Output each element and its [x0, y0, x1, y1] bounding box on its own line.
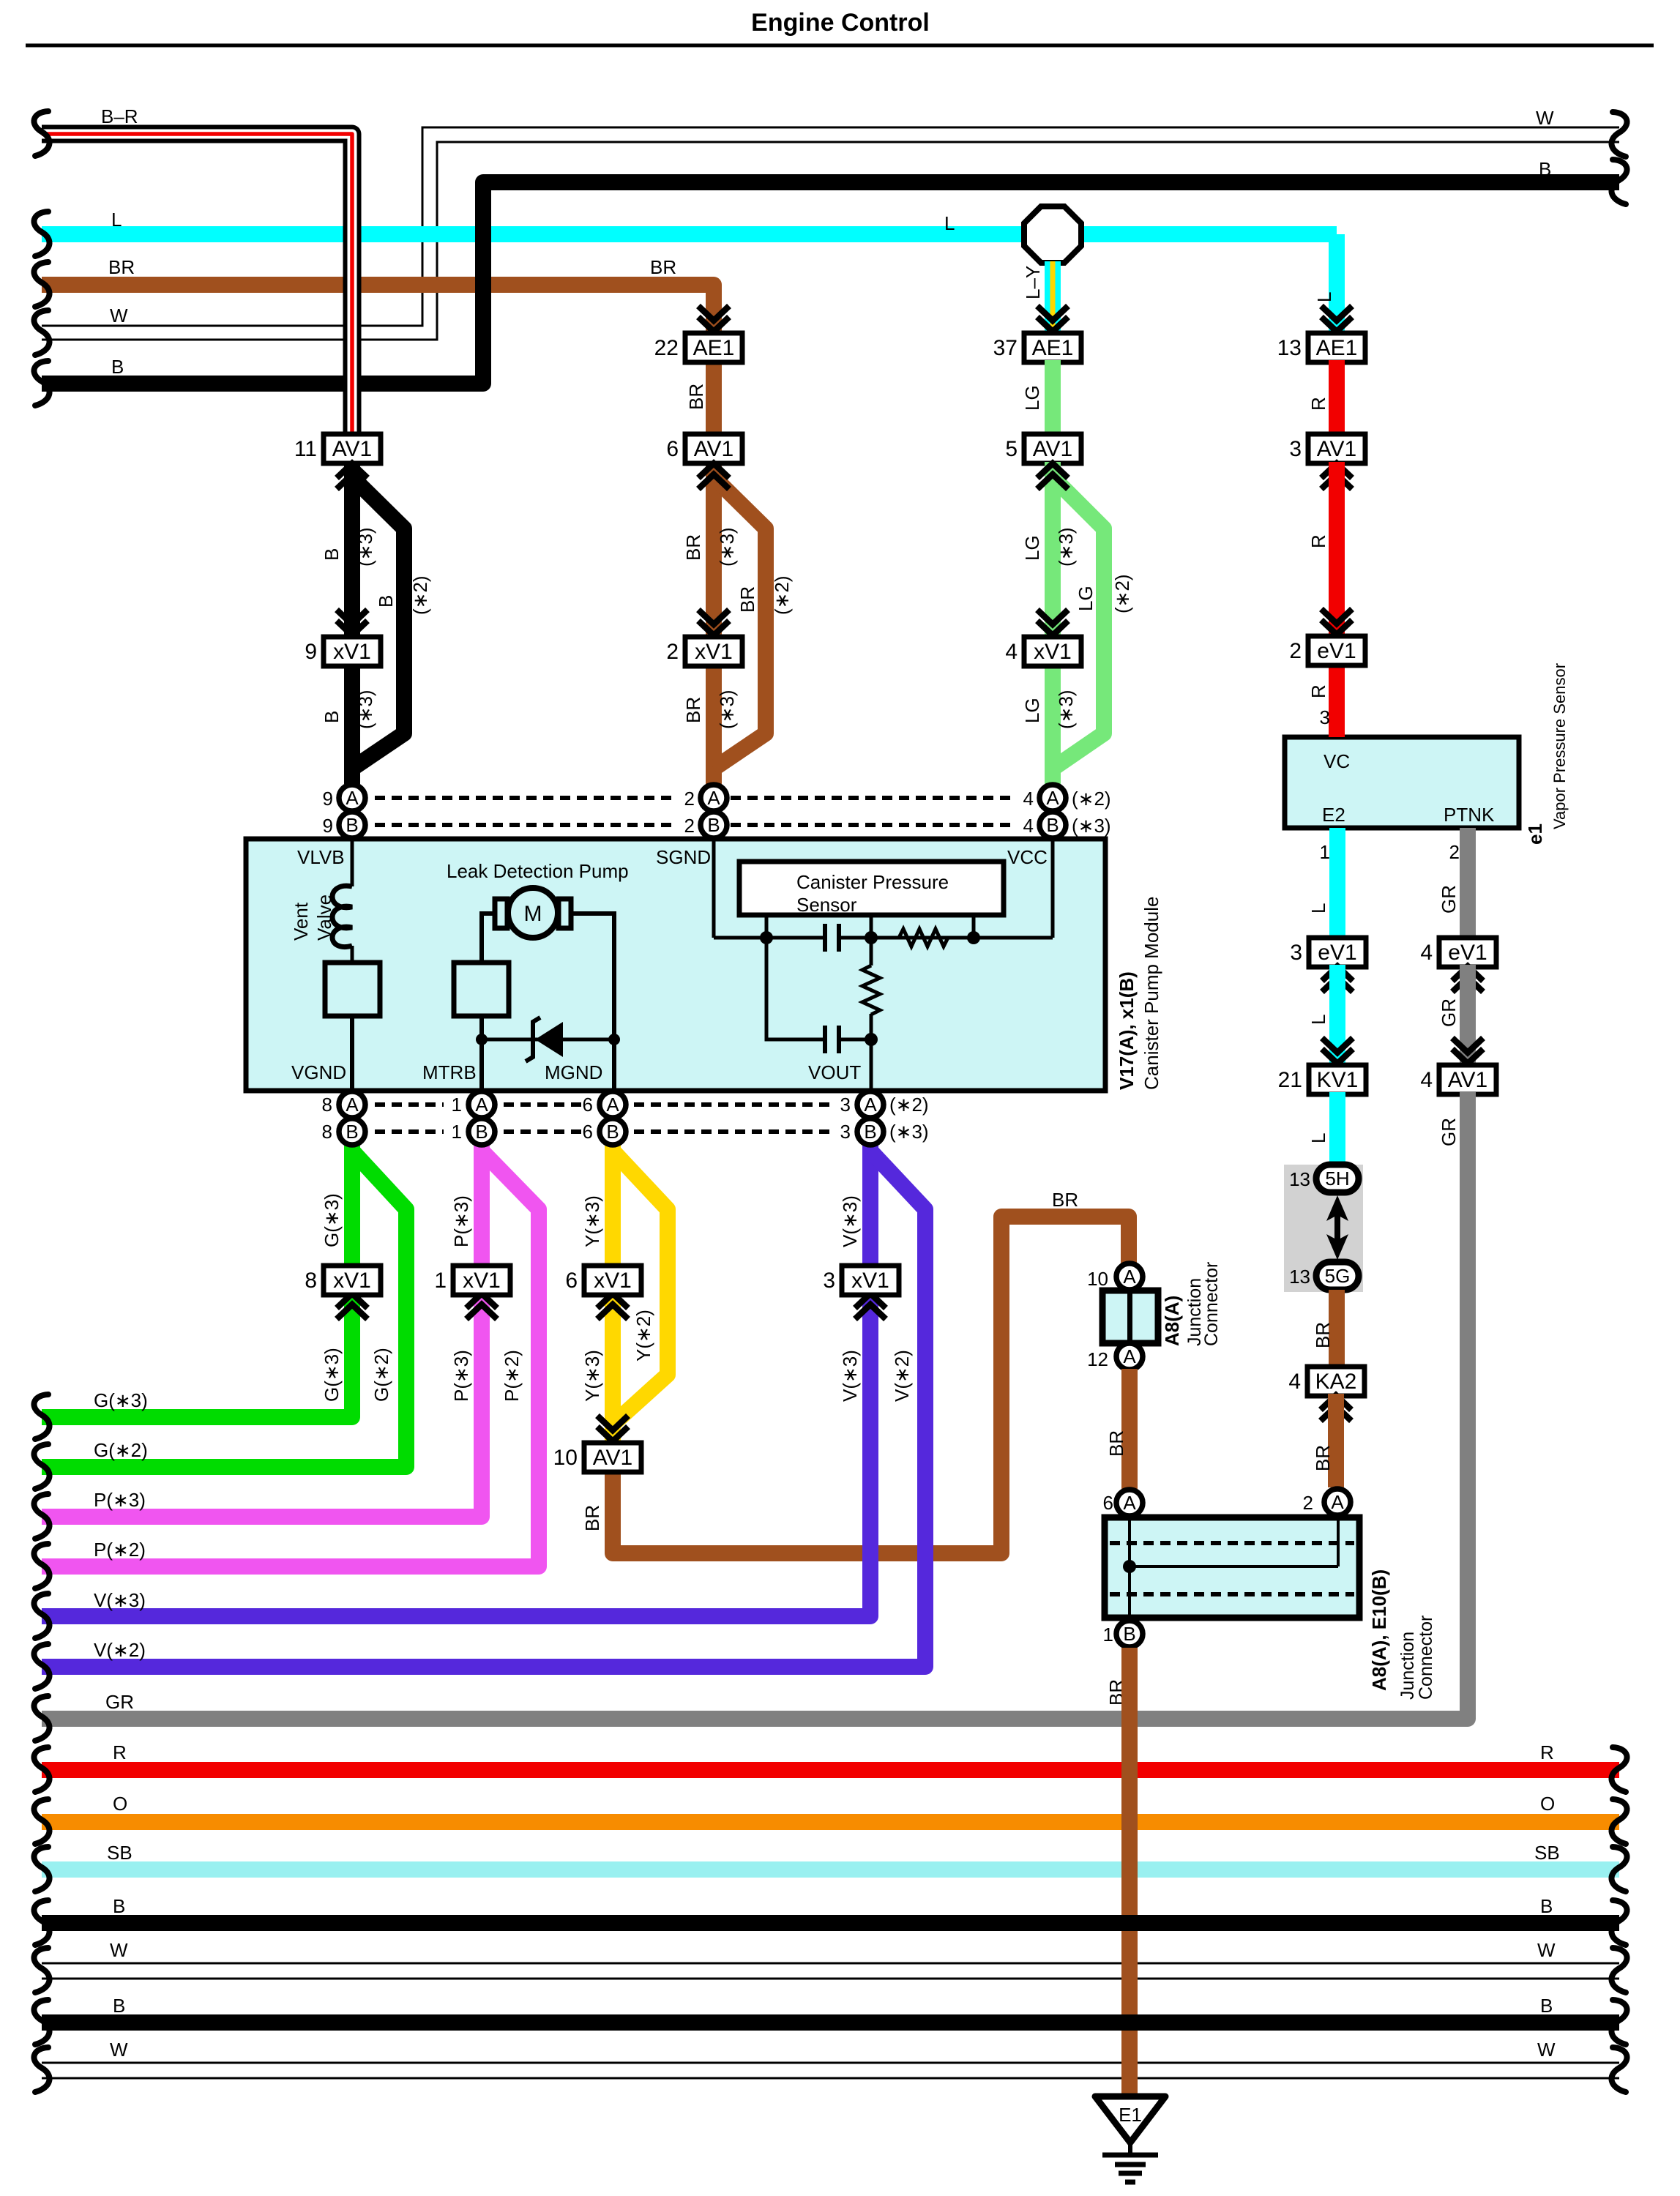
svg-text:10: 10: [553, 1446, 578, 1470]
svg-text:xV1: xV1: [1034, 640, 1072, 664]
svg-text:A8(A): A8(A): [1161, 1296, 1183, 1346]
svg-text:5G: 5G: [1325, 1265, 1351, 1287]
svg-text:13: 13: [1289, 1168, 1310, 1190]
svg-text:Y(∗2): Y(∗2): [632, 1310, 654, 1362]
svg-text:B: B: [346, 1121, 358, 1143]
svg-text:A: A: [346, 787, 359, 809]
svg-text:B: B: [1046, 814, 1059, 836]
svg-text:R: R: [113, 1741, 127, 1763]
svg-text:GR: GR: [1438, 998, 1460, 1027]
svg-text:L–Y: L–Y: [1022, 266, 1044, 299]
svg-text:M: M: [524, 902, 542, 926]
svg-text:R: R: [1307, 684, 1329, 698]
svg-text:B: B: [707, 814, 720, 836]
svg-text:1: 1: [452, 1094, 462, 1116]
svg-text:A: A: [1123, 1492, 1136, 1514]
svg-text:A: A: [1123, 1345, 1136, 1367]
svg-text:P(∗3): P(∗3): [450, 1350, 472, 1402]
svg-text:AE1: AE1: [1316, 336, 1358, 360]
svg-text:AV1: AV1: [593, 1446, 632, 1470]
svg-text:AV1: AV1: [1448, 1068, 1487, 1092]
svg-text:W: W: [110, 1939, 128, 1961]
svg-text:BR: BR: [650, 256, 676, 278]
svg-text:GR: GR: [105, 1691, 134, 1713]
svg-text:L: L: [1307, 1015, 1329, 1025]
svg-text:Vapor Pressure Sensor: Vapor Pressure Sensor: [1550, 663, 1569, 829]
svg-text:B: B: [111, 356, 124, 378]
svg-text:B: B: [1540, 1995, 1553, 2017]
svg-text:2: 2: [684, 788, 695, 810]
svg-text:3: 3: [840, 1094, 851, 1116]
svg-text:V(∗2): V(∗2): [891, 1350, 913, 1402]
svg-text:2: 2: [684, 815, 695, 837]
svg-text:Sensor: Sensor: [796, 894, 857, 916]
svg-text:MTRB: MTRB: [422, 1061, 477, 1083]
svg-text:V17(A), x1(B): V17(A), x1(B): [1116, 971, 1138, 1090]
svg-text:(∗3): (∗3): [1072, 815, 1111, 837]
svg-text:R: R: [1307, 534, 1329, 548]
svg-text:SGND: SGND: [656, 846, 711, 868]
svg-text:5H: 5H: [1325, 1168, 1349, 1189]
svg-text:9: 9: [323, 788, 333, 810]
svg-text:(∗3): (∗3): [1055, 527, 1077, 567]
svg-text:O: O: [1540, 1793, 1555, 1815]
svg-text:B: B: [346, 814, 358, 836]
svg-text:8: 8: [322, 1094, 332, 1116]
svg-text:4: 4: [1005, 640, 1018, 664]
svg-text:(∗3): (∗3): [889, 1121, 929, 1143]
svg-text:B: B: [864, 1121, 876, 1143]
svg-text:KV1: KV1: [1317, 1068, 1359, 1092]
svg-text:BR: BR: [1052, 1189, 1078, 1211]
svg-text:O: O: [113, 1793, 127, 1815]
svg-text:Connector: Connector: [1416, 1616, 1436, 1700]
svg-text:AV1: AV1: [694, 437, 733, 461]
svg-text:Leak Detection Pump: Leak Detection Pump: [447, 860, 629, 882]
svg-text:xV1: xV1: [333, 640, 371, 664]
svg-text:xV1: xV1: [851, 1269, 889, 1293]
svg-text:9: 9: [305, 640, 317, 664]
svg-text:Y(∗3): Y(∗3): [581, 1350, 603, 1402]
svg-text:A: A: [707, 787, 720, 809]
svg-text:VCC: VCC: [1007, 846, 1048, 868]
svg-text:2: 2: [1289, 639, 1302, 663]
svg-text:1: 1: [1103, 1624, 1113, 1646]
svg-text:3: 3: [840, 1121, 851, 1143]
svg-text:xV1: xV1: [695, 640, 733, 664]
svg-text:MGND: MGND: [545, 1061, 602, 1083]
svg-text:E1: E1: [1119, 2104, 1142, 2126]
svg-text:2: 2: [1303, 1492, 1313, 1514]
svg-text:BR: BR: [1312, 1322, 1334, 1348]
svg-text:P(∗2): P(∗2): [501, 1350, 523, 1402]
svg-text:6: 6: [583, 1121, 593, 1143]
svg-text:B: B: [113, 1895, 125, 1917]
svg-text:BR: BR: [736, 586, 758, 613]
svg-text:G(∗2): G(∗2): [370, 1348, 392, 1402]
svg-text:G(∗2): G(∗2): [94, 1439, 148, 1461]
svg-text:1: 1: [1320, 841, 1330, 863]
svg-text:9: 9: [323, 815, 333, 837]
svg-text:6: 6: [666, 437, 679, 461]
svg-text:(∗3): (∗3): [354, 690, 376, 729]
svg-text:(∗3): (∗3): [716, 690, 738, 729]
svg-text:V(∗3): V(∗3): [839, 1350, 861, 1402]
svg-text:BR: BR: [1312, 1445, 1334, 1471]
svg-text:13: 13: [1277, 336, 1302, 360]
svg-text:BR: BR: [108, 256, 135, 278]
svg-text:4: 4: [1420, 1068, 1433, 1092]
svg-text:W: W: [110, 305, 128, 326]
svg-text:B–R: B–R: [101, 105, 138, 127]
svg-text:12: 12: [1087, 1348, 1108, 1370]
svg-text:BR: BR: [581, 1505, 603, 1531]
svg-text:2: 2: [1449, 841, 1460, 863]
svg-text:B: B: [1540, 1895, 1553, 1917]
svg-text:LG: LG: [1075, 586, 1097, 611]
svg-text:6: 6: [565, 1269, 578, 1293]
svg-text:Y(∗3): Y(∗3): [581, 1195, 603, 1247]
svg-text:LG: LG: [1021, 385, 1043, 411]
svg-text:3: 3: [823, 1269, 835, 1293]
svg-text:LG: LG: [1021, 535, 1043, 561]
svg-text:Connector: Connector: [1201, 1262, 1222, 1346]
svg-text:4: 4: [1023, 815, 1034, 837]
svg-text:B: B: [1123, 1623, 1135, 1645]
svg-text:e1: e1: [1524, 823, 1546, 845]
svg-text:AE1: AE1: [1032, 336, 1074, 360]
svg-text:BR: BR: [1105, 1430, 1127, 1457]
svg-text:eV1: eV1: [1318, 941, 1356, 965]
svg-text:10: 10: [1087, 1268, 1108, 1290]
svg-text:PTNK: PTNK: [1444, 804, 1495, 826]
svg-text:A: A: [606, 1094, 619, 1116]
svg-text:G(∗3): G(∗3): [94, 1389, 148, 1411]
svg-text:xV1: xV1: [333, 1269, 371, 1293]
svg-text:W: W: [1536, 107, 1554, 129]
svg-text:B: B: [321, 548, 343, 561]
svg-text:A: A: [475, 1094, 488, 1116]
svg-text:(∗2): (∗2): [1111, 574, 1133, 613]
svg-text:B: B: [321, 711, 343, 723]
svg-text:L: L: [1307, 1133, 1329, 1143]
svg-text:BR: BR: [682, 697, 704, 723]
svg-text:eV1: eV1: [1317, 639, 1356, 663]
svg-text:6: 6: [1103, 1492, 1113, 1514]
svg-text:R: R: [1540, 1741, 1554, 1763]
svg-text:V(∗3): V(∗3): [839, 1195, 861, 1247]
svg-text:W: W: [1537, 1939, 1556, 1961]
svg-text:4: 4: [1023, 788, 1034, 810]
svg-text:(∗3): (∗3): [354, 527, 376, 567]
svg-text:VC: VC: [1324, 750, 1350, 772]
svg-text:21: 21: [1278, 1068, 1302, 1092]
svg-text:A8(A), E10(B): A8(A), E10(B): [1368, 1569, 1390, 1691]
svg-text:G(∗3): G(∗3): [321, 1348, 343, 1402]
svg-text:GR: GR: [1438, 885, 1460, 914]
svg-text:Canister Pump Module: Canister Pump Module: [1140, 897, 1162, 1090]
svg-text:LG: LG: [1021, 698, 1043, 723]
svg-text:Canister Pressure: Canister Pressure: [796, 871, 949, 893]
svg-text:P(∗3): P(∗3): [450, 1195, 472, 1247]
svg-text:5: 5: [1005, 437, 1018, 461]
svg-text:8: 8: [305, 1269, 317, 1293]
svg-text:(∗3): (∗3): [716, 527, 738, 567]
svg-text:xV1: xV1: [463, 1269, 501, 1293]
svg-text:A: A: [1331, 1491, 1344, 1513]
svg-text:P(∗3): P(∗3): [94, 1489, 146, 1511]
svg-text:L: L: [944, 212, 955, 234]
svg-text:(∗2): (∗2): [409, 575, 431, 615]
svg-text:KA2: KA2: [1315, 1370, 1357, 1394]
svg-text:Valve: Valve: [313, 895, 335, 941]
svg-text:(∗3): (∗3): [1055, 690, 1077, 729]
svg-text:AE1: AE1: [693, 336, 735, 360]
svg-text:4: 4: [1288, 1370, 1301, 1394]
svg-text:(∗2): (∗2): [771, 575, 793, 615]
svg-text:Vent: Vent: [290, 902, 312, 941]
svg-text:V(∗3): V(∗3): [94, 1589, 146, 1611]
svg-text:A: A: [864, 1094, 877, 1116]
svg-text:11: 11: [294, 437, 317, 461]
svg-text:SB: SB: [1534, 1842, 1560, 1864]
svg-text:V(∗2): V(∗2): [94, 1639, 146, 1661]
svg-text:eV1: eV1: [1448, 941, 1487, 965]
svg-text:BR: BR: [685, 384, 707, 410]
svg-text:B: B: [475, 1121, 488, 1143]
svg-text:8: 8: [322, 1121, 332, 1143]
svg-text:VGND: VGND: [291, 1061, 346, 1083]
svg-text:W: W: [110, 2039, 128, 2061]
svg-text:(∗2): (∗2): [889, 1094, 929, 1116]
svg-text:22: 22: [654, 336, 679, 360]
svg-text:xV1: xV1: [594, 1269, 632, 1293]
svg-text:A: A: [346, 1094, 359, 1116]
svg-text:B: B: [1539, 158, 1551, 180]
svg-text:AV1: AV1: [1317, 437, 1356, 461]
svg-text:6: 6: [583, 1094, 593, 1116]
svg-text:L: L: [1313, 292, 1335, 302]
svg-text:B: B: [606, 1121, 619, 1143]
svg-text:A: A: [1046, 787, 1059, 809]
svg-text:1: 1: [434, 1269, 447, 1293]
svg-text:E2: E2: [1322, 804, 1345, 826]
svg-text:A: A: [1123, 1266, 1136, 1288]
svg-text:AV1: AV1: [1033, 437, 1072, 461]
svg-text:Junction: Junction: [1397, 1632, 1418, 1700]
svg-text:(∗2): (∗2): [1072, 788, 1111, 810]
svg-text:AV1: AV1: [332, 437, 372, 461]
svg-text:3: 3: [1290, 941, 1302, 965]
svg-text:W: W: [1537, 2039, 1556, 2061]
svg-text:2: 2: [666, 640, 679, 664]
svg-text:B: B: [113, 1995, 125, 2017]
svg-text:B: B: [375, 595, 397, 608]
svg-text:3: 3: [1320, 706, 1330, 728]
svg-text:13: 13: [1289, 1266, 1310, 1288]
svg-text:1: 1: [452, 1121, 462, 1143]
svg-text:GR: GR: [1438, 1118, 1460, 1146]
svg-text:P(∗2): P(∗2): [94, 1539, 146, 1561]
svg-text:4: 4: [1420, 941, 1433, 965]
svg-text:L: L: [1307, 903, 1329, 914]
svg-text:37: 37: [993, 336, 1018, 360]
svg-text:G(∗3): G(∗3): [321, 1193, 343, 1247]
svg-text:VLVB: VLVB: [297, 846, 345, 868]
svg-text:SB: SB: [107, 1842, 132, 1864]
svg-text:L: L: [111, 209, 122, 231]
svg-text:R: R: [1307, 397, 1329, 411]
svg-text:Engine Control: Engine Control: [751, 9, 930, 37]
svg-text:VOUT: VOUT: [808, 1061, 861, 1083]
svg-text:BR: BR: [682, 534, 704, 561]
svg-text:3: 3: [1289, 437, 1302, 461]
